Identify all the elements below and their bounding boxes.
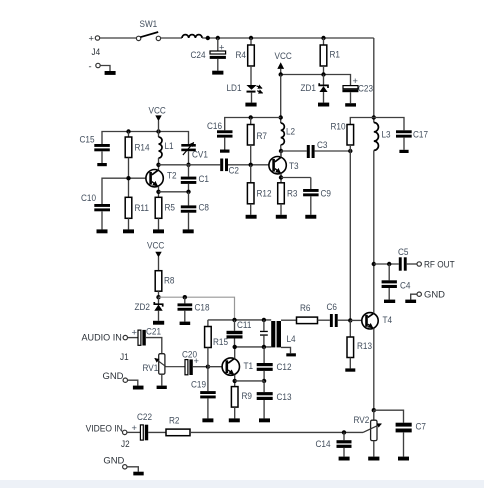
resistor R15 bbox=[205, 320, 228, 367]
svg-text:C8: C8 bbox=[199, 202, 210, 212]
node C11 top bbox=[232, 318, 236, 322]
svg-text:C14: C14 bbox=[316, 439, 331, 449]
ground (C17) bbox=[399, 150, 408, 153]
ground (R13) bbox=[345, 368, 355, 371]
ground (R12) bbox=[246, 215, 257, 219]
resistor R14 bbox=[125, 132, 149, 198]
capacitor C9 bbox=[303, 178, 331, 215]
inductor (input filter choke) bbox=[182, 35, 202, 38]
wire T3 emitter to C9 bbox=[281, 177, 311, 179]
node R4 tap bbox=[249, 36, 253, 40]
capacitor C12 bbox=[257, 347, 292, 381]
node C3/R10 junction bbox=[348, 149, 352, 153]
wire right rail down bbox=[373, 38, 375, 123]
wire T4 emitter to C7 bbox=[374, 410, 404, 423]
footer bar bbox=[0, 480, 484, 488]
svg-text:C13: C13 bbox=[277, 392, 292, 402]
transistor T1 bbox=[222, 358, 253, 375]
wire T2 emitter bbox=[158, 187, 160, 198]
capacitor C20 bbox=[182, 349, 208, 375]
resistor R7 bbox=[247, 118, 267, 165]
wire T2 base rail bbox=[102, 178, 149, 204]
node VCC stem junction bbox=[279, 72, 283, 76]
wire T2 collector to C2 bbox=[159, 164, 221, 166]
wire T4 collector up to RF node bbox=[373, 264, 375, 313]
node trimmer cap top bbox=[262, 318, 266, 322]
wire R8 feed line to C11 node bbox=[159, 297, 235, 320]
resistor R13 bbox=[347, 320, 372, 368]
capacitor C5 bbox=[398, 247, 417, 271]
svg-text:LD1: LD1 bbox=[227, 83, 242, 93]
ground (C13) bbox=[259, 418, 270, 422]
svg-text:+: + bbox=[132, 328, 137, 338]
svg-text:C24: C24 bbox=[191, 50, 206, 60]
terminal RF OUT bbox=[417, 259, 455, 269]
svg-text:C22: C22 bbox=[137, 412, 152, 422]
ground (R9) bbox=[229, 418, 240, 422]
wire T4 emitter down bbox=[373, 328, 375, 410]
svg-text:C6: C6 bbox=[327, 302, 338, 312]
resistor R9 bbox=[231, 387, 252, 419]
svg-text:C16: C16 bbox=[207, 121, 222, 131]
svg-text:L4: L4 bbox=[287, 334, 296, 344]
svg-text:J2: J2 bbox=[121, 439, 130, 449]
wire RF node to C5 bbox=[374, 263, 399, 265]
ground (J4 minus) bbox=[105, 71, 116, 75]
terminal GND (RF) bbox=[411, 289, 446, 299]
svg-text:J4: J4 bbox=[92, 47, 101, 57]
node C14 tap bbox=[342, 430, 346, 434]
svg-text:GND: GND bbox=[103, 456, 124, 466]
node coil output bbox=[206, 36, 210, 40]
svg-text:R2: R2 bbox=[169, 415, 180, 425]
svg-text:L3: L3 bbox=[382, 129, 391, 139]
resistor R6 bbox=[297, 303, 330, 324]
capacitor C22 bbox=[132, 412, 167, 441]
svg-text:RF OUT: RF OUT bbox=[424, 259, 455, 269]
svg-text:C17: C17 bbox=[413, 129, 428, 139]
terminal GND (video) bbox=[103, 456, 138, 472]
svg-text:VCC: VCC bbox=[147, 240, 165, 250]
wire C2 to T3 base bbox=[228, 164, 272, 166]
capacitor C21 bbox=[132, 326, 162, 353]
wire top supply rail bbox=[202, 37, 374, 39]
capacitor C8 bbox=[181, 192, 209, 230]
resistor R2 bbox=[166, 415, 363, 435]
svg-text:R5: R5 bbox=[165, 202, 176, 212]
inductor L1 bbox=[159, 132, 174, 171]
svg-text:C12: C12 bbox=[277, 362, 292, 372]
capacitor C7 bbox=[396, 421, 426, 456]
potentiometer RV2 bbox=[354, 410, 382, 456]
svg-text:C7: C7 bbox=[416, 421, 427, 431]
capacitor C15 bbox=[80, 134, 110, 163]
wire J4- to ground bbox=[100, 66, 110, 72]
VCC symbol (oscillator) bbox=[149, 105, 167, 131]
svg-text:R11: R11 bbox=[135, 203, 149, 213]
node T4 base junction bbox=[348, 318, 352, 322]
svg-text:J1: J1 bbox=[120, 352, 129, 362]
svg-text:R3: R3 bbox=[287, 188, 298, 198]
ground (C10) bbox=[97, 229, 108, 233]
svg-text:VIDEO IN: VIDEO IN bbox=[86, 423, 123, 433]
node C24 tap bbox=[216, 36, 220, 40]
svg-text:VCC: VCC bbox=[149, 105, 167, 115]
resistor R12 bbox=[247, 165, 271, 215]
svg-text:C11: C11 bbox=[237, 320, 251, 330]
svg-text:C2: C2 bbox=[229, 165, 240, 175]
svg-text:RV1: RV1 bbox=[143, 363, 159, 373]
node R7/R12 base junction bbox=[249, 163, 253, 167]
node R7 top bbox=[249, 115, 253, 119]
node T4 emitter junction bbox=[372, 408, 376, 412]
svg-text:L2: L2 bbox=[286, 126, 295, 136]
variable capacitor CV1 bbox=[181, 143, 208, 165]
wire L2 to T3 collector bbox=[280, 145, 282, 157]
capacitor C24 bbox=[191, 38, 226, 71]
ground (video jack) bbox=[133, 472, 143, 476]
svg-text:C9: C9 bbox=[321, 188, 332, 198]
node T1 collector junction bbox=[233, 345, 237, 349]
capacitor C17 bbox=[396, 129, 428, 150]
capacitor C10 bbox=[81, 193, 110, 230]
node R8 bottom bbox=[156, 295, 160, 299]
node T3 emitter bbox=[279, 175, 283, 179]
ground (C18) bbox=[180, 322, 191, 325]
node C18 tap bbox=[183, 295, 187, 299]
node R14/R11 junction bbox=[126, 176, 130, 180]
svg-text:R1: R1 bbox=[330, 49, 341, 59]
wire T1 collector line bbox=[235, 346, 272, 348]
svg-text:+: + bbox=[89, 34, 94, 44]
capacitor (small, L4 tank) bbox=[260, 320, 268, 347]
terminal VIDEO IN / J2 bbox=[86, 423, 130, 449]
wire L4 to R6 bbox=[281, 319, 297, 321]
node C3 tap bbox=[279, 149, 283, 153]
ground (ZD1) bbox=[318, 103, 329, 107]
svg-text:T1: T1 bbox=[244, 361, 254, 371]
ground (C24) bbox=[212, 71, 223, 75]
svg-text:+: + bbox=[194, 356, 199, 366]
ground (R5) bbox=[153, 229, 164, 233]
svg-text:C19: C19 bbox=[191, 379, 206, 389]
node RF out junction bbox=[372, 262, 376, 266]
svg-text:-: - bbox=[89, 62, 92, 72]
wire VCC column down to L2 bbox=[280, 75, 282, 124]
inductor L2 bbox=[281, 123, 295, 145]
node C1/C8 junction bbox=[186, 190, 190, 194]
node VCC column / T2-T3 rail bbox=[279, 115, 283, 119]
wire J4+ to SW1 bbox=[100, 37, 136, 39]
resistor R11 bbox=[125, 197, 149, 229]
ground (LD1) bbox=[245, 103, 256, 107]
transistor T4 bbox=[362, 313, 392, 329]
ground (C16) bbox=[220, 150, 230, 153]
capacitor C14 bbox=[316, 432, 352, 456]
svg-text:SW1: SW1 bbox=[140, 19, 158, 29]
capacitor C3 bbox=[281, 140, 350, 158]
wire base node to T1 bbox=[208, 366, 226, 368]
LED LD1 bbox=[227, 83, 263, 103]
node T2 collector bbox=[156, 163, 160, 167]
capacitor C16 bbox=[207, 121, 233, 150]
capacitor C13 bbox=[257, 381, 292, 419]
svg-text:C1: C1 bbox=[199, 174, 210, 184]
svg-text:R4: R4 bbox=[236, 50, 247, 60]
svg-text:C23: C23 bbox=[358, 83, 373, 93]
resistor R4 bbox=[236, 38, 255, 85]
capacitor C19 bbox=[191, 367, 216, 419]
terminal GND (audio) bbox=[103, 371, 138, 386]
svg-text:R10: R10 bbox=[331, 121, 346, 131]
wire VCC distribution line bbox=[281, 75, 351, 86]
ground (C19) bbox=[202, 418, 213, 422]
svg-text:R12: R12 bbox=[257, 188, 272, 198]
svg-text:GND: GND bbox=[424, 289, 445, 299]
svg-text:C21: C21 bbox=[146, 326, 161, 336]
svg-text:T3: T3 bbox=[289, 161, 299, 171]
resistor R1 bbox=[320, 38, 340, 75]
wire audio in to C21 bbox=[128, 337, 138, 339]
svg-text:RV2: RV2 bbox=[354, 415, 370, 425]
transformer L4 bbox=[271, 321, 295, 347]
ground (RV2) bbox=[368, 457, 379, 461]
node C12/C13 junction bbox=[262, 379, 266, 383]
switch SW1 bbox=[136, 19, 160, 41]
oscillator rail wire bbox=[102, 132, 189, 145]
node right rail / L3 line bbox=[372, 115, 376, 119]
svg-text:ZD1: ZD1 bbox=[301, 83, 317, 93]
wire T3 supply rail bbox=[225, 118, 281, 131]
wire modulator supply line bbox=[208, 319, 271, 321]
capacitor C23 bbox=[342, 76, 373, 103]
zener diode ZD2 bbox=[135, 297, 163, 321]
svg-text:R8: R8 bbox=[164, 275, 175, 285]
svg-text:C18: C18 bbox=[195, 302, 210, 312]
wire C3 node down to T4 base node bbox=[349, 151, 351, 320]
resistor R5 bbox=[155, 197, 175, 229]
capacitor C6 bbox=[327, 302, 351, 327]
connector J4 bbox=[89, 34, 101, 72]
node T1 emitter bbox=[233, 379, 237, 383]
ground (C23) bbox=[345, 103, 356, 106]
resistor R10 bbox=[331, 121, 354, 151]
ground (C9) bbox=[305, 215, 316, 219]
svg-text:R6: R6 bbox=[300, 303, 311, 313]
node R1 tap bbox=[321, 36, 325, 40]
svg-text:AUDIO IN: AUDIO IN bbox=[82, 332, 122, 342]
svg-text:L1: L1 bbox=[165, 141, 174, 151]
wire emitter to C1/C8 node bbox=[159, 191, 189, 193]
svg-text:R9: R9 bbox=[242, 391, 253, 401]
node T2 emitter bbox=[156, 190, 160, 194]
ground (RF jack) bbox=[405, 300, 416, 303]
capacitor C2 bbox=[220, 159, 239, 176]
svg-text:R7: R7 bbox=[257, 131, 268, 141]
wire right rail below L3 bbox=[373, 150, 375, 264]
transistor T2 bbox=[146, 170, 177, 187]
capacitor C18 bbox=[178, 297, 210, 321]
ground (C7) bbox=[398, 457, 409, 461]
node C4 tap bbox=[387, 262, 391, 266]
node C12 top bbox=[262, 345, 266, 349]
svg-text:GND: GND bbox=[103, 371, 124, 381]
wire T1 emitter bbox=[234, 375, 236, 387]
wire T1 emitter to C12/C13 node bbox=[235, 380, 264, 382]
ground (C15) bbox=[97, 163, 107, 166]
wire R10 top line bbox=[350, 118, 404, 131]
resistor R8 bbox=[155, 271, 174, 298]
wire L4 secondary to ground bbox=[281, 347, 291, 353]
svg-text:ZD2: ZD2 bbox=[135, 302, 151, 312]
node L1 top bbox=[156, 129, 160, 133]
ground (C8) bbox=[183, 229, 194, 233]
svg-text:T2: T2 bbox=[167, 171, 177, 181]
svg-text:T4: T4 bbox=[383, 315, 393, 325]
potentiometer RV1 bbox=[143, 354, 185, 386]
ground (RV1) bbox=[157, 386, 167, 389]
svg-text:C15: C15 bbox=[80, 134, 95, 144]
transistor T3 bbox=[269, 157, 299, 174]
ground (audio jack) bbox=[133, 386, 144, 390]
node ZD1 tap bbox=[321, 72, 325, 76]
svg-text:R13: R13 bbox=[357, 341, 372, 351]
svg-text:R14: R14 bbox=[135, 142, 150, 152]
svg-text:+: + bbox=[132, 423, 137, 433]
VCC symbol (main supply node) bbox=[275, 51, 293, 75]
svg-text:+: + bbox=[353, 76, 358, 86]
capacitor C1 bbox=[181, 165, 209, 192]
resistor R3 bbox=[278, 183, 298, 215]
wire base node to T4 bbox=[350, 319, 365, 321]
VCC symbol (audio supply) bbox=[147, 240, 165, 270]
wire video in to C22 bbox=[127, 431, 140, 433]
svg-text:C3: C3 bbox=[317, 140, 328, 150]
svg-text:VCC: VCC bbox=[275, 51, 293, 61]
wire T1 collector bbox=[234, 347, 236, 359]
capacitor C4 bbox=[382, 264, 411, 300]
wire T3 emitter bbox=[280, 174, 282, 183]
svg-text:R15: R15 bbox=[213, 337, 228, 347]
zener diode ZD1 bbox=[301, 75, 329, 103]
inductor L3 bbox=[374, 123, 391, 151]
node T1 base junction bbox=[206, 365, 210, 369]
svg-text:C5: C5 bbox=[398, 247, 409, 257]
ground (C14) bbox=[339, 457, 350, 461]
ground (R3) bbox=[276, 215, 287, 219]
ground (C4) bbox=[384, 300, 395, 303]
node C1/CV1 junction bbox=[186, 163, 190, 167]
ground (L4 secondary) bbox=[286, 353, 296, 356]
node R14 top bbox=[126, 129, 130, 133]
ground (ZD2) bbox=[153, 321, 164, 325]
wire SW1 to L5 coil bbox=[161, 37, 182, 39]
wire T3 collector bbox=[280, 151, 282, 157]
svg-text:C10: C10 bbox=[81, 193, 96, 203]
terminal AUDIO IN / J1 bbox=[82, 332, 129, 362]
ground (R11) bbox=[123, 229, 134, 233]
svg-text:C4: C4 bbox=[400, 280, 411, 290]
capacitor C11 bbox=[227, 320, 252, 347]
